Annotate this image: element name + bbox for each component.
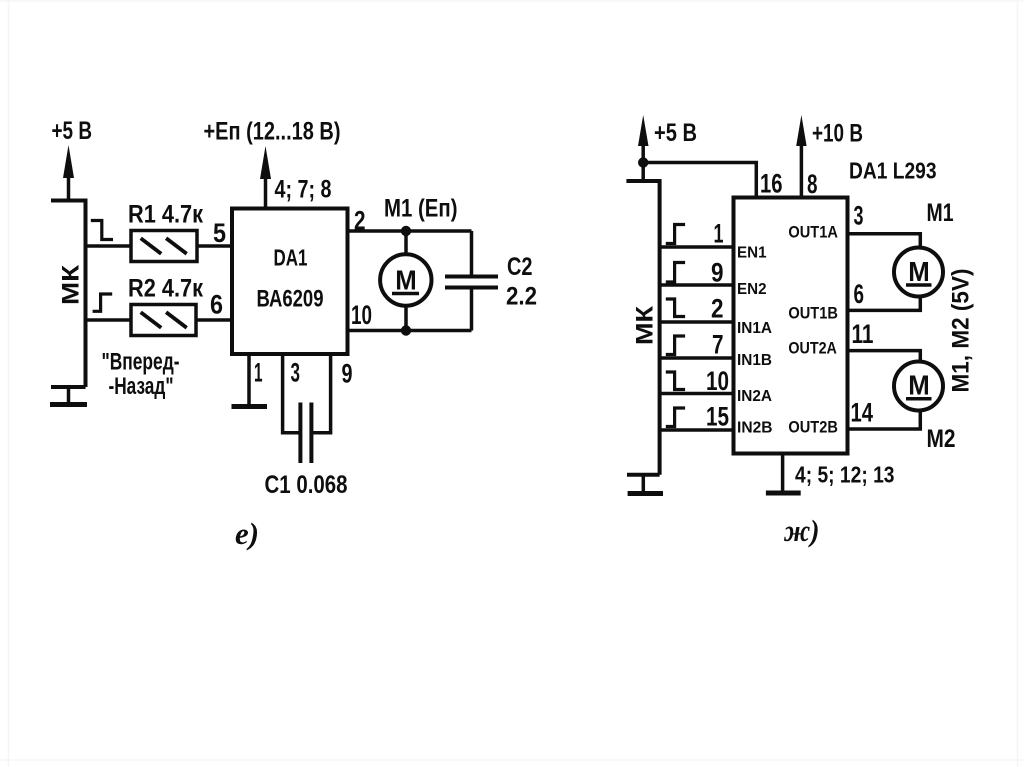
svg-text:IN2B: IN2B: [737, 420, 773, 437]
pin 6 wire to M1: [848, 297, 921, 310]
op IC DA1 BA6209: [232, 209, 348, 355]
wire +5V to pin16: [643, 163, 756, 198]
pin 1 EN1 wire: [660, 245, 734, 249]
svg-text:DA1: DA1: [274, 245, 308, 271]
svg-text:М2: М2: [927, 425, 956, 453]
pin 7 IN1B wire: [660, 356, 734, 360]
pin 2 IN1A wire: [660, 320, 734, 324]
svg-text:3: 3: [854, 201, 864, 231]
rising-edge pulse (pin 1): [666, 225, 685, 244]
pin 10 wire: [348, 329, 472, 333]
svg-text:2: 2: [711, 294, 724, 324]
svg-text:+10 В: +10 В: [812, 120, 863, 148]
svg-text:МК: МК: [632, 306, 659, 345]
svg-text:2.2: 2.2: [506, 283, 537, 311]
svg-text:10: 10: [706, 366, 729, 396]
node dot pin10/M1: [401, 325, 411, 335]
svg-text:IN1B: IN1B: [737, 352, 772, 369]
+Еп arrow: [264, 170, 268, 209]
svg-text:1: 1: [714, 219, 724, 249]
svg-text:+5 В: +5 В: [52, 117, 93, 145]
wire MK to R1: [86, 244, 132, 248]
+10V arrow (pin 8): [800, 140, 804, 198]
falling-edge pulse symbol (R1 input): [91, 221, 113, 240]
svg-text:М: М: [908, 370, 930, 401]
pin 3 wire: [283, 354, 300, 433]
pin 9 EN2 wire: [660, 283, 734, 287]
svg-text:М: М: [395, 265, 417, 296]
pin 15 IN2B wire: [660, 428, 734, 432]
pin 10 IN2A wire: [660, 392, 734, 396]
svg-text:IN2A: IN2A: [737, 388, 772, 405]
wire MK to R2: [86, 318, 132, 322]
MK block МК: [626, 179, 659, 475]
pin 14 wire to M2: [848, 411, 921, 429]
svg-text:R2 4.7к: R2 4.7к: [128, 275, 203, 303]
svg-text:11: 11: [852, 319, 874, 349]
svg-text:4; 5; 12; 13: 4; 5; 12; 13: [795, 462, 895, 488]
pin 1 stub: [247, 354, 251, 406]
svg-text:EN2: EN2: [737, 281, 767, 298]
ground (MK bottom): [642, 475, 646, 493]
svg-text:9: 9: [711, 258, 724, 288]
svg-text:М1 (Еп): М1 (Еп): [384, 195, 458, 223]
capacitor C1: [298, 403, 302, 464]
capacitor C2: [470, 231, 474, 275]
svg-text:"Вперед-: "Вперед-: [102, 349, 180, 376]
svg-text:8: 8: [807, 169, 818, 199]
falling-edge pulse (pin 2): [666, 299, 685, 317]
svg-text:М1: М1: [927, 199, 954, 227]
pin 2 wire: [348, 229, 472, 233]
svg-text:-Назад": -Назад": [109, 373, 174, 400]
svg-text:OUT1A: OUT1A: [788, 222, 838, 241]
svg-text:9: 9: [342, 359, 353, 389]
svg-text:МК: МК: [58, 265, 85, 305]
wire R2 to pin6: [196, 318, 232, 322]
pin 9 wire: [312, 354, 331, 433]
MK block МК: [51, 199, 86, 388]
svg-text:15: 15: [706, 402, 729, 432]
rising-edge pulse (pin 7): [666, 336, 685, 355]
svg-text:OUT2B: OUT2B: [788, 418, 838, 437]
svg-text:ВА6209: ВА6209: [257, 285, 324, 312]
wire +5V down to MK: [641, 163, 645, 182]
+5V arrow: [67, 170, 71, 201]
svg-text:2: 2: [354, 206, 366, 236]
svg-text:OUT1B: OUT1B: [788, 304, 838, 323]
svg-text:М1, М2 (5V): М1, М2 (5V): [948, 269, 975, 393]
pin 3 wire to M1: [848, 234, 921, 247]
svg-text:4; 7; 8: 4; 7; 8: [275, 176, 332, 204]
resistor R2: [131, 305, 196, 336]
svg-text:1: 1: [254, 358, 263, 388]
motor M2: [894, 362, 943, 411]
svg-text:10: 10: [351, 300, 372, 330]
node dot pin2/M1: [401, 226, 411, 236]
rising-edge pulse (pin 9): [666, 263, 685, 283]
svg-text:EN1: EN1: [737, 245, 767, 262]
svg-text:3: 3: [291, 358, 301, 388]
svg-text:ж): ж): [783, 513, 819, 548]
svg-text:6: 6: [854, 279, 865, 309]
falling-edge pulse (pin 10): [666, 372, 685, 390]
rising-edge pulse (pin 15): [666, 408, 685, 427]
ground pin 4;5;12;13: [781, 454, 785, 493]
svg-text:М: М: [908, 256, 930, 287]
IC DA1 L293 box: [734, 198, 848, 454]
svg-text:7: 7: [712, 330, 724, 360]
svg-text:С1 0.068: С1 0.068: [265, 471, 348, 499]
wire R1 to pin5: [197, 244, 232, 248]
svg-text:е): е): [235, 516, 259, 551]
svg-text:С2: С2: [507, 253, 533, 281]
svg-text:IN1A: IN1A: [737, 320, 772, 337]
svg-text:6: 6: [210, 290, 223, 320]
motor M1: [404, 231, 408, 255]
ground (pin 1): [232, 404, 268, 409]
svg-text:+Еп (12...18 В): +Еп (12...18 В): [204, 118, 341, 146]
rising-edge pulse symbol (R2 input): [93, 294, 113, 311]
svg-text:16: 16: [760, 169, 783, 199]
svg-text:5: 5: [213, 218, 226, 248]
svg-text:DA1 L293: DA1 L293: [849, 158, 937, 184]
motor M1: [894, 248, 943, 297]
svg-text:OUT2A: OUT2A: [788, 339, 837, 358]
pin 11 wire to M2: [848, 351, 921, 361]
ground (MK bottom): [50, 387, 87, 405]
node dot +5V: [638, 157, 648, 167]
svg-text:+5 В: +5 В: [654, 119, 697, 147]
svg-text:14: 14: [851, 398, 874, 428]
resistor R1: [131, 231, 197, 262]
+5V arrow: [641, 140, 645, 163]
svg-text:R1 4.7к: R1 4.7к: [128, 201, 203, 229]
